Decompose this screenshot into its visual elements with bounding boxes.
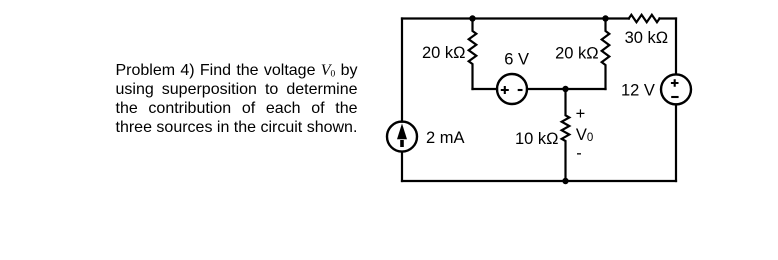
resistor 30 kOhm (horizontal, top right) [629,15,660,22]
problem statement paragraph [116,62,358,138]
junction node dot: top of left 20k [469,15,475,21]
wire: from 20k left bottom to 6 V source [473,88,498,90]
minus sign inside 12 V source [671,96,678,98]
svg-text:30 kΩ: 30 kΩ [625,29,669,47]
resistor 20 kOhm (right vertical) with leads [602,19,610,90]
current source 2 mA (circle) [387,122,417,152]
minus sign inside 6 V source [518,89,523,91]
svg-text:V0: V0 [576,126,593,144]
svg-text:10 kΩ: 10 kΩ [515,130,559,148]
svg-text:2 mA: 2 mA [426,129,465,147]
junction node dot: top of right 20k [602,15,608,21]
svg-text:6 V: 6 V [504,51,529,69]
wire: top rail left of 30k [402,17,629,19]
wire: 6 V source to middle node [527,88,606,90]
voltage source 6 V (circle) [497,74,527,104]
resistor 10 kOhm (vertical) with leads [562,89,570,181]
svg-text:20 kΩ: 20 kΩ [555,44,599,62]
resistor 20 kOhm (left vertical) with leads [469,19,477,90]
wire: right rail below 12 V source [675,104,677,181]
wire: left rail above 2 mA source [401,19,403,122]
svg-text:20 kΩ: 20 kΩ [422,44,466,62]
arrow inside 2 mA current source [400,140,404,147]
voltage source 12 V (circle) [661,74,691,104]
svg-text:-: - [576,145,582,163]
junction node dot: bottom of 10k [562,178,568,184]
wire: bottom rail [402,180,676,182]
plus sign inside 12 V source [671,79,679,87]
svg-text:12 V: 12 V [621,82,655,100]
wire: right rail above 12 V source [675,19,677,75]
plus sign inside 6 V source [501,86,509,94]
wire: top rail right of 30k [660,17,677,19]
wire: left rail below 2 mA source [401,152,403,181]
svg-text:+: + [576,105,586,123]
junction node dot: top of 10k [562,86,568,92]
